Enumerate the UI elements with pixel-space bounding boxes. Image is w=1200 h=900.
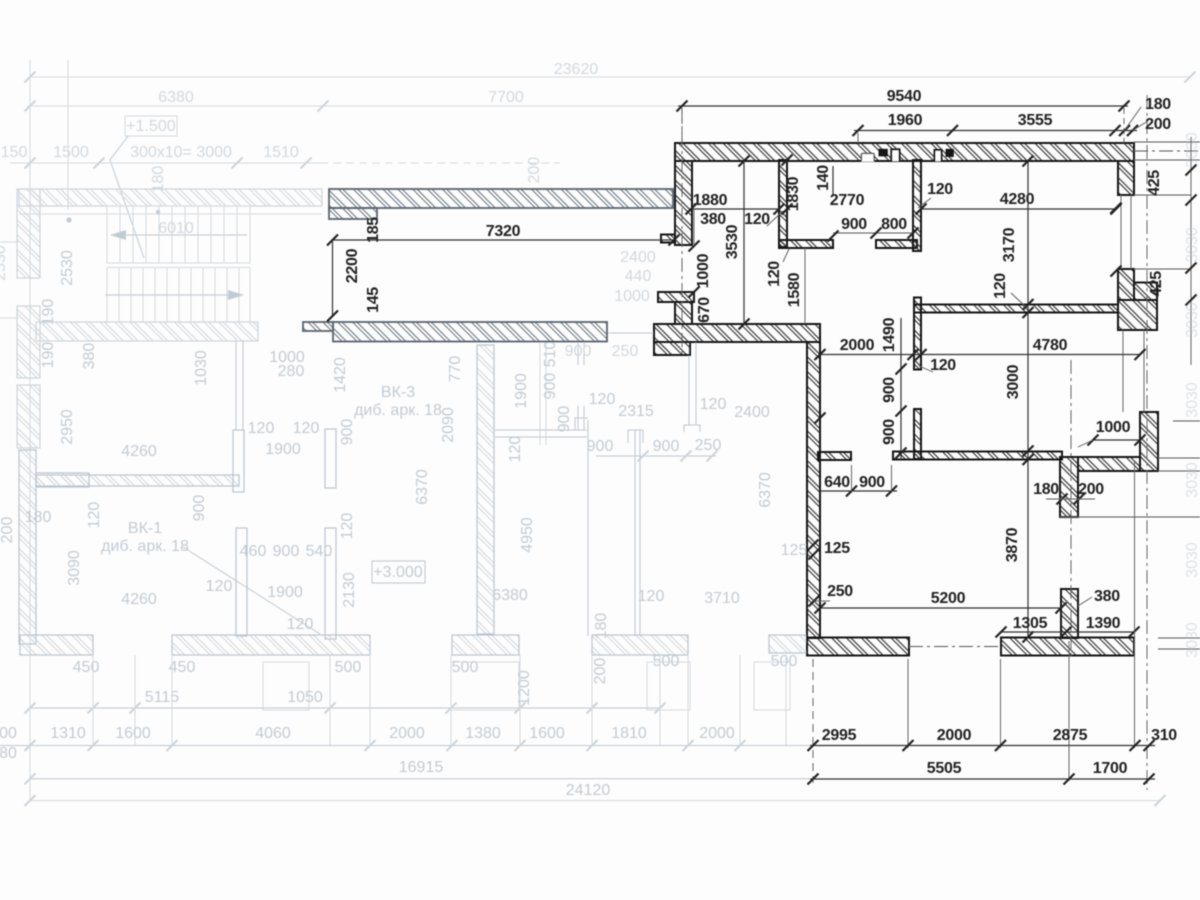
svg-text:ВК-1: ВК-1 xyxy=(128,520,162,537)
svg-text:1310: 1310 xyxy=(50,725,86,742)
svg-text:+3.000: +3.000 xyxy=(373,564,422,581)
svg-text:900: 900 xyxy=(191,495,208,522)
svg-text:450: 450 xyxy=(169,659,196,676)
svg-text:диб. арк. 18: диб. арк. 18 xyxy=(354,402,442,419)
svg-text:150: 150 xyxy=(1,144,28,161)
svg-text:2000: 2000 xyxy=(699,725,735,742)
svg-text:500: 500 xyxy=(452,659,479,676)
svg-text:1420: 1420 xyxy=(332,357,349,393)
svg-text:180: 180 xyxy=(150,166,167,193)
svg-text:3170: 3170 xyxy=(1001,227,1018,262)
svg-text:1900: 1900 xyxy=(513,373,530,409)
svg-text:3530: 3530 xyxy=(724,224,741,259)
svg-text:425: 425 xyxy=(1146,170,1163,196)
svg-text:120: 120 xyxy=(293,420,320,437)
svg-text:2000: 2000 xyxy=(389,725,425,742)
svg-text:1960: 1960 xyxy=(888,112,923,129)
svg-text:1200: 1200 xyxy=(516,670,533,706)
svg-text:диб. арк. 18: диб. арк. 18 xyxy=(101,538,189,555)
svg-text:2000: 2000 xyxy=(937,727,972,744)
svg-text:6380: 6380 xyxy=(158,89,194,106)
svg-text:4260: 4260 xyxy=(121,443,157,460)
svg-text:6010: 6010 xyxy=(158,220,194,237)
svg-text:200: 200 xyxy=(592,658,609,685)
svg-text:3030: 3030 xyxy=(1184,302,1200,338)
svg-text:7320: 7320 xyxy=(486,223,521,240)
svg-text:3030: 3030 xyxy=(1184,622,1200,658)
svg-text:4280: 4280 xyxy=(1000,191,1035,208)
svg-text:3555: 3555 xyxy=(1018,112,1053,129)
svg-text:180: 180 xyxy=(1033,481,1059,498)
svg-text:460: 460 xyxy=(240,543,267,560)
svg-text:540: 540 xyxy=(306,543,333,560)
svg-text:4060: 4060 xyxy=(255,725,291,742)
svg-text:5200: 5200 xyxy=(931,590,966,607)
svg-text:2315: 2315 xyxy=(618,403,654,420)
svg-text:900: 900 xyxy=(273,543,300,560)
svg-text:120: 120 xyxy=(287,616,314,633)
svg-text:900: 900 xyxy=(841,216,867,233)
svg-text:500: 500 xyxy=(771,653,798,670)
svg-text:180: 180 xyxy=(1145,96,1171,113)
svg-text:+1.500: +1.500 xyxy=(126,118,175,135)
svg-text:3030: 3030 xyxy=(1184,132,1200,168)
svg-text:190: 190 xyxy=(40,342,57,369)
svg-text:140: 140 xyxy=(815,165,832,191)
svg-text:2130: 2130 xyxy=(341,572,358,608)
svg-text:450: 450 xyxy=(73,659,100,676)
svg-text:640: 640 xyxy=(824,474,850,491)
svg-text:120: 120 xyxy=(589,391,616,408)
svg-text:2400: 2400 xyxy=(620,249,656,266)
svg-text:7700: 7700 xyxy=(488,89,524,106)
svg-text:280: 280 xyxy=(278,363,305,380)
svg-text:3870: 3870 xyxy=(1004,527,1021,562)
svg-text:145: 145 xyxy=(365,287,382,313)
svg-text:2770: 2770 xyxy=(830,192,865,209)
svg-text:185: 185 xyxy=(365,217,382,243)
svg-text:250: 250 xyxy=(612,343,639,360)
svg-text:1900: 1900 xyxy=(267,584,303,601)
svg-text:6370: 6370 xyxy=(757,472,774,508)
svg-text:ВК-3: ВК-3 xyxy=(381,384,415,401)
svg-text:1305: 1305 xyxy=(1013,615,1048,632)
svg-text:1500: 1500 xyxy=(53,144,89,161)
svg-text:1030: 1030 xyxy=(193,350,210,386)
svg-text:120: 120 xyxy=(206,578,233,595)
svg-text:6380: 6380 xyxy=(492,587,528,604)
svg-text:380: 380 xyxy=(700,211,726,228)
svg-text:1510: 1510 xyxy=(263,144,299,161)
svg-text:1490: 1490 xyxy=(881,317,898,352)
svg-text:4950: 4950 xyxy=(519,517,536,553)
svg-text:1580: 1580 xyxy=(786,272,803,307)
svg-text:380: 380 xyxy=(81,343,98,370)
svg-text:900: 900 xyxy=(881,419,898,445)
svg-text:380: 380 xyxy=(1094,588,1120,605)
svg-text:300x10= 3000: 300x10= 3000 xyxy=(130,144,232,161)
svg-text:5505: 5505 xyxy=(927,760,962,777)
svg-text:3030: 3030 xyxy=(1184,227,1200,263)
svg-text:2400: 2400 xyxy=(734,404,770,421)
svg-text:125: 125 xyxy=(824,540,850,557)
svg-text:500: 500 xyxy=(653,653,680,670)
svg-text:2875: 2875 xyxy=(1053,727,1088,744)
svg-text:3000: 3000 xyxy=(1005,364,1022,399)
svg-text:200: 200 xyxy=(1145,116,1171,133)
svg-text:1390: 1390 xyxy=(1086,615,1121,632)
svg-text:3090: 3090 xyxy=(66,550,83,586)
svg-text:2000: 2000 xyxy=(840,337,875,354)
svg-text:3030: 3030 xyxy=(1184,542,1200,578)
svg-text:1600: 1600 xyxy=(529,725,565,742)
svg-text:310: 310 xyxy=(1151,727,1177,744)
svg-text:180: 180 xyxy=(25,509,52,526)
svg-text:3030: 3030 xyxy=(1184,382,1200,418)
svg-text:900: 900 xyxy=(542,373,559,400)
svg-text:120: 120 xyxy=(507,436,524,463)
svg-text:1000: 1000 xyxy=(695,253,712,288)
svg-text:900: 900 xyxy=(859,474,885,491)
svg-text:425: 425 xyxy=(1148,271,1165,297)
svg-text:2530: 2530 xyxy=(0,245,9,281)
svg-text:6370: 6370 xyxy=(414,469,431,505)
svg-text:1380: 1380 xyxy=(465,725,501,742)
svg-text:5115: 5115 xyxy=(145,689,180,706)
svg-text:120: 120 xyxy=(992,273,1009,299)
svg-text:00: 00 xyxy=(0,725,17,742)
svg-text:120: 120 xyxy=(638,588,665,605)
svg-text:120: 120 xyxy=(86,502,103,529)
svg-text:500: 500 xyxy=(335,659,362,676)
svg-text:1810: 1810 xyxy=(611,725,647,742)
svg-text:1900: 1900 xyxy=(265,441,301,458)
svg-text:3030: 3030 xyxy=(1184,462,1200,498)
svg-text:1600: 1600 xyxy=(115,725,151,742)
svg-text:1050: 1050 xyxy=(287,689,323,706)
svg-text:900: 900 xyxy=(881,377,898,403)
svg-text:190: 190 xyxy=(40,299,57,326)
svg-text:4780: 4780 xyxy=(1033,337,1068,354)
svg-text:3710: 3710 xyxy=(704,590,740,607)
svg-text:200: 200 xyxy=(0,517,16,544)
svg-text:2950: 2950 xyxy=(59,409,76,445)
svg-text:1000: 1000 xyxy=(614,288,650,305)
svg-text:800: 800 xyxy=(881,216,907,233)
svg-text:180: 180 xyxy=(593,613,610,640)
svg-text:125: 125 xyxy=(781,542,808,559)
svg-text:120: 120 xyxy=(744,211,770,228)
svg-text:900: 900 xyxy=(587,438,614,455)
svg-text:2200: 2200 xyxy=(344,248,361,283)
svg-text:120: 120 xyxy=(930,357,956,374)
svg-text:900: 900 xyxy=(653,438,680,455)
svg-text:2530: 2530 xyxy=(59,250,76,286)
svg-text:1000: 1000 xyxy=(1096,419,1131,436)
svg-text:1700: 1700 xyxy=(1093,760,1128,777)
svg-text:440: 440 xyxy=(625,268,652,285)
svg-text:120: 120 xyxy=(927,181,953,198)
svg-text:770: 770 xyxy=(447,356,464,383)
svg-text:120: 120 xyxy=(339,513,356,540)
svg-text:250: 250 xyxy=(827,583,853,600)
svg-text:24120: 24120 xyxy=(566,782,611,799)
svg-text:120: 120 xyxy=(700,396,727,413)
svg-text:9540: 9540 xyxy=(887,88,922,105)
svg-text:16915: 16915 xyxy=(399,759,444,776)
svg-text:670: 670 xyxy=(696,297,713,323)
svg-text:120: 120 xyxy=(248,420,275,437)
svg-text:900: 900 xyxy=(565,343,592,360)
svg-text:80: 80 xyxy=(0,745,17,762)
svg-text:510: 510 xyxy=(542,341,559,368)
svg-text:2090: 2090 xyxy=(440,407,457,443)
svg-text:2995: 2995 xyxy=(822,727,857,744)
svg-text:900: 900 xyxy=(339,419,356,446)
svg-text:900: 900 xyxy=(556,406,573,433)
svg-text:23620: 23620 xyxy=(554,61,599,78)
svg-text:1880: 1880 xyxy=(693,192,728,209)
svg-text:4260: 4260 xyxy=(121,591,157,608)
svg-text:120: 120 xyxy=(766,261,783,287)
svg-text:1830: 1830 xyxy=(785,176,802,211)
svg-text:200: 200 xyxy=(526,157,543,184)
